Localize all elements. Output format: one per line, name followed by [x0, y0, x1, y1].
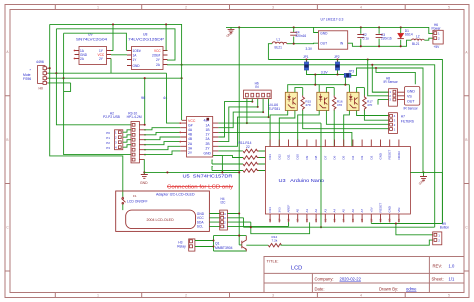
svg-text:GND: GND	[140, 181, 148, 185]
wire 3.3V distribution rail	[268, 60, 442, 224]
svg-text:JP1: JP1	[303, 55, 309, 59]
display 2004 LCD-OLED	[126, 210, 196, 229]
ground	[418, 177, 427, 186]
svg-text:D12: D12	[277, 154, 281, 160]
svg-text:5: 5	[448, 294, 450, 298]
svg-text:P2: P2	[106, 141, 110, 145]
jumper JP3	[344, 70, 354, 78]
ground	[225, 27, 234, 38]
wire JP bottoms rail	[307, 70, 345, 85]
junction	[268, 116, 270, 118]
svg-text:D8: D8	[314, 155, 318, 159]
svg-text:F1: F1	[133, 194, 137, 198]
junction	[238, 26, 240, 28]
svg-text:GND: GND	[204, 152, 212, 156]
junction	[371, 64, 373, 66]
svg-text:P0: P0	[106, 131, 110, 135]
svg-text:GND: GND	[407, 90, 415, 94]
frame ruler ticks top	[55, 5, 405, 10]
wire long left vertical from GND rail down to Q1	[238, 27, 240, 245]
svg-text:VCC: VCC	[188, 119, 196, 123]
capacitor C4	[290, 27, 306, 43]
svg-text:P1: P1	[106, 136, 110, 140]
junction	[305, 58, 307, 60]
svg-text:U5 SN74HC157DR: U5 SN74HC157DR	[183, 173, 233, 178]
svg-text:A4: A4	[333, 209, 337, 213]
svg-text:D9: D9	[305, 155, 309, 159]
svg-text:I2C: I2C	[221, 201, 227, 205]
svg-text:Company:: Company:	[315, 276, 334, 281]
wire R3 pin8 to ground	[143, 160, 145, 175]
svg-text:3.3V: 3.3V	[321, 70, 329, 74]
wire H0.4 jog	[48, 83, 71, 92]
junction	[49, 67, 51, 69]
frame ruler letters right	[465, 51, 468, 230]
junction	[181, 64, 183, 66]
svg-text:3: 3	[272, 6, 274, 10]
svg-text:JP3: JP3	[349, 70, 355, 74]
wire H9 pin1 net from +5V pin riser	[371, 172, 442, 234]
resistor network R3-10	[127, 111, 144, 163]
junction	[144, 77, 146, 79]
svg-text:4496: 4496	[36, 60, 44, 64]
junction	[395, 222, 397, 224]
svg-text:D5: D5	[342, 155, 346, 159]
svg-text:Drawn By:: Drawn By:	[379, 287, 398, 292]
junction	[143, 171, 145, 173]
connector H6 Power	[432, 23, 444, 49]
junction	[250, 226, 252, 228]
transistor Q1 MMBT3904	[215, 236, 246, 252]
ground	[140, 175, 148, 185]
junction	[246, 122, 248, 124]
svg-text:TLP281: TLP281	[269, 107, 281, 111]
junction	[360, 26, 362, 28]
svg-text:D6: D6	[333, 155, 337, 159]
junction	[344, 84, 346, 86]
junction	[221, 171, 223, 173]
wire net 44 riser to U5	[167, 73, 181, 123]
svg-text:odme: odme	[406, 287, 417, 292]
wire H2 to R3-10	[123, 130, 131, 147]
inductor L1	[272, 37, 287, 49]
junction	[320, 226, 322, 228]
svg-text:74LVC2G126DP: 74LVC2G126DP	[128, 38, 165, 42]
svg-text:SCL: SCL	[197, 225, 204, 229]
svg-text:U8: U8	[143, 33, 147, 37]
junction	[400, 26, 402, 28]
wire mid run to net 44 riser	[56, 59, 166, 74]
svg-text:IR Sensor: IR Sensor	[384, 80, 399, 84]
inductor L2	[412, 34, 425, 46]
junction	[314, 73, 316, 75]
svg-text:Power: Power	[432, 26, 442, 30]
svg-text:TITLE:: TITLE:	[267, 259, 279, 264]
svg-text:A2: A2	[314, 209, 318, 213]
svg-text:D2: D2	[369, 155, 373, 159]
svg-text:D13: D13	[268, 154, 272, 160]
svg-text:Q1: Q1	[215, 242, 220, 246]
junction	[144, 124, 146, 126]
svg-text:REV:: REV:	[433, 264, 443, 269]
svg-text:220n16: 220n16	[296, 34, 307, 38]
resistor R17	[363, 88, 389, 121]
svg-text:470: 470	[337, 103, 342, 107]
wire through vertical x321	[218, 123, 321, 227]
svg-text:+5V: +5V	[434, 45, 441, 49]
junction	[378, 45, 380, 47]
svg-text:OUT: OUT	[320, 42, 327, 46]
wire L2 to H6 power	[424, 38, 433, 40]
connector H8	[384, 76, 399, 106]
svg-text:VS: VS	[407, 95, 412, 99]
capacitor C2	[357, 27, 369, 40]
svg-text:LCD: LCD	[291, 266, 302, 272]
wire net over U9/U8	[50, 24, 182, 64]
svg-text:470: 470	[367, 103, 372, 107]
svg-text:3.3V: 3.3V	[306, 47, 313, 51]
connector H9 Button	[433, 222, 450, 245]
wire R11-R14 to arduino left	[259, 151, 269, 171]
frame ruler numbers top	[97, 6, 450, 10]
junction	[400, 45, 402, 47]
LCD adapter module box	[116, 191, 210, 231]
wire feeds to H8	[368, 60, 389, 105]
svg-text:1/1: 1/1	[449, 276, 455, 281]
svg-text:D4: D4	[351, 155, 355, 159]
wire 3.3V net	[268, 43, 318, 59]
svg-text:D7: D7	[323, 155, 327, 159]
connector H7	[389, 113, 415, 134]
svg-text:GND: GND	[320, 32, 328, 36]
svg-text:BL21: BL21	[275, 46, 283, 50]
IR sensor module	[397, 87, 419, 111]
svg-text:H7: H7	[401, 115, 405, 119]
svg-text:B: B	[465, 138, 467, 142]
svg-text:SS14: SS14	[405, 32, 413, 36]
svg-text:A5: A5	[342, 209, 346, 213]
connector H0	[23, 60, 48, 91]
resistor R15	[301, 88, 389, 129]
svg-text:RESET: RESET	[388, 150, 392, 160]
junction	[262, 111, 264, 113]
svg-text:AREF: AREF	[287, 205, 291, 213]
wire U9 mid jogs to U8	[111, 51, 127, 55]
svg-text:D11: D11	[287, 154, 291, 159]
svg-text:96: 96	[141, 96, 145, 100]
frame ruler ticks right	[464, 96, 469, 271]
svg-text:22: 22	[246, 145, 250, 149]
junction	[251, 101, 253, 103]
junction	[165, 23, 167, 25]
svg-text:2: 2	[185, 294, 187, 298]
junction	[293, 26, 295, 28]
svg-text:1.0: 1.0	[449, 264, 455, 269]
svg-text:Sheet:: Sheet:	[432, 276, 444, 281]
svg-text:2OE#: 2OE#	[152, 54, 160, 58]
junction	[181, 64, 183, 66]
pin-end dots R3-10 right	[144, 129, 146, 156]
jumper JP1	[303, 55, 309, 70]
junction	[55, 72, 57, 74]
svg-text:B: B	[6, 138, 8, 142]
wire R3-10 to U5 jogs	[144, 128, 180, 155]
buffer U8 74LVC2G126DP	[127, 33, 168, 70]
svg-text:Button: Button	[440, 226, 449, 230]
svg-text:2: 2	[185, 6, 187, 10]
svg-text:FS96: FS96	[23, 77, 31, 81]
wire JP3 to right risers	[345, 68, 423, 173]
junction	[238, 212, 240, 214]
svg-text:A0: A0	[296, 209, 300, 213]
svg-text:Connection for LCD only: Connection for LCD only	[167, 184, 234, 190]
svg-text:5: 5	[448, 6, 450, 10]
junction	[367, 58, 369, 60]
wire opto anode rail	[288, 85, 350, 93]
svg-text:MMBT3904: MMBT3904	[215, 246, 233, 250]
wire H6 IN pin drops	[247, 99, 269, 124]
junction	[378, 26, 380, 28]
wire H4 to risers	[227, 214, 288, 228]
svg-text:G#: G#	[188, 123, 193, 127]
junction	[213, 240, 215, 242]
svg-text:HP1-4-2M: HP1-4-2M	[127, 115, 142, 119]
op-amp U9 SN74LVC2G04	[74, 33, 111, 65]
junction	[238, 171, 240, 173]
svg-text:3: 3	[272, 294, 274, 298]
wire long 64.8 rail from U8.2A to right column	[167, 65, 435, 227]
diode D1	[398, 27, 413, 38]
svg-text:Date:: Date:	[315, 287, 325, 292]
svg-text:1OE#: 1OE#	[133, 49, 141, 53]
svg-text:L1: L1	[277, 37, 281, 41]
jumper JP2	[334, 55, 340, 70]
wire ground bus to right	[144, 156, 239, 173]
svg-text:2020-02-22: 2020-02-22	[340, 276, 362, 281]
wire LCD to H4	[209, 214, 219, 227]
junction	[360, 45, 362, 47]
svg-text:U7 LM1117-3.3: U7 LM1117-3.3	[321, 18, 344, 22]
svg-text:VIN: VIN	[397, 208, 401, 213]
svg-text:4: 4	[360, 294, 362, 298]
svg-text:LCD ON/OFF: LCD ON/OFF	[127, 199, 148, 203]
wire net from H0.2 to U8.2Y and down to R3-10 pin1	[48, 29, 175, 125]
svg-text:Adapter I2C-LCD-OLED: Adapter I2C-LCD-OLED	[156, 193, 195, 197]
svg-text:D0/RX: D0/RX	[397, 151, 401, 160]
svg-text:1: 1	[97, 294, 99, 298]
junction	[375, 67, 377, 69]
svg-text:A1: A1	[305, 209, 309, 213]
capacitor C3	[376, 27, 392, 40]
wire net from H0.3 to U8.1OE and down to R3-10 pin7	[48, 33, 131, 154]
wire GND top rail	[226, 27, 433, 33]
junction	[336, 58, 338, 60]
svg-text:D3: D3	[360, 155, 364, 159]
wire Q1 collector loop and H3	[195, 236, 246, 251]
svg-text:U3 Arduino Nano: U3 Arduino Nano	[279, 178, 325, 184]
svg-text:220n16: 220n16	[381, 37, 392, 41]
svg-text:D10: D10	[296, 154, 300, 160]
wire net from H0.1 down-left trunk to LCD switch	[48, 24, 123, 197]
svg-text:IR Sensor: IR Sensor	[404, 107, 419, 111]
junction	[166, 171, 168, 173]
svg-text:SN74LVC2G04: SN74LVC2G04	[76, 38, 107, 42]
connector H3 Relay	[177, 239, 195, 251]
frame ruler letters left	[6, 50, 9, 229]
title block	[264, 257, 464, 293]
multiplexer U5 SN74HC157DR	[179, 117, 232, 179]
svg-text:BL21: BL21	[412, 42, 420, 46]
wire U5 lower pins to R11-R14	[212, 151, 243, 171]
junction	[336, 73, 338, 75]
junction	[422, 171, 424, 173]
optocoupler U4	[270, 88, 303, 147]
regulator U7 LM1117-3.3	[306, 18, 348, 52]
svg-text:470: 470	[305, 103, 310, 107]
svg-text:A6: A6	[351, 209, 355, 213]
svg-text:+5V: +5V	[369, 207, 373, 212]
connector H4	[220, 197, 228, 230]
wire bottom long rail	[244, 222, 435, 233]
svg-text:JP2: JP2	[334, 55, 340, 59]
svg-text:P3: P3	[106, 146, 110, 150]
mcu U3 Arduino Nano	[265, 140, 410, 223]
junction	[181, 77, 183, 79]
optocoupler U5b	[298, 88, 389, 147]
svg-text:VCC: VCC	[154, 49, 161, 53]
optocoupler U6	[344, 88, 389, 147]
svg-text:GND: GND	[379, 153, 383, 159]
wire +5V rail	[348, 39, 412, 47]
svg-text:OUT: OUT	[407, 100, 415, 104]
svg-text:FILTERS: FILTERS	[401, 120, 415, 124]
svg-text:GND: GND	[133, 64, 141, 68]
junction	[257, 106, 259, 108]
junction	[213, 246, 215, 248]
frame ruler numbers bottom	[97, 294, 450, 298]
connector H6 IN	[244, 82, 272, 99]
resistor R12	[246, 235, 432, 247]
junction	[238, 235, 240, 237]
frame ruler ticks bottom	[55, 293, 405, 298]
junction	[314, 84, 316, 86]
junction	[63, 77, 65, 79]
junction	[112, 23, 114, 25]
svg-text:A3: A3	[323, 209, 327, 213]
wire long lower run	[64, 78, 182, 125]
frame ruler ticks left	[5, 96, 10, 271]
svg-text:1: 1	[97, 6, 99, 10]
svg-text:A7: A7	[360, 209, 364, 213]
svg-text:0.1u: 0.1u	[363, 37, 369, 41]
connector H2	[103, 111, 123, 150]
svg-text:H0: H0	[39, 87, 43, 91]
svg-text:2004 LCD-OLED: 2004 LCD-OLED	[147, 218, 175, 222]
svg-text:4: 4	[360, 6, 362, 10]
svg-text:L2: L2	[416, 34, 420, 38]
label Connection for LCD only	[167, 184, 234, 190]
svg-text:D13: D13	[268, 207, 272, 213]
wire U5 outputs bundle to arduino	[218, 102, 352, 147]
svg-text:RESET: RESET	[379, 203, 383, 213]
junction	[293, 43, 295, 45]
svg-text:P2-P2 USB: P2-P2 USB	[103, 115, 121, 119]
wire arduino right gnd stub	[410, 172, 442, 176]
resistor R11-R14 group	[239, 141, 260, 172]
svg-text:3V3: 3V3	[277, 207, 281, 213]
svg-text:Relay: Relay	[177, 245, 186, 249]
svg-text:GND: GND	[388, 206, 392, 212]
resistor R16	[332, 88, 342, 147]
svg-text:7.2k: 7.2k	[272, 239, 278, 243]
